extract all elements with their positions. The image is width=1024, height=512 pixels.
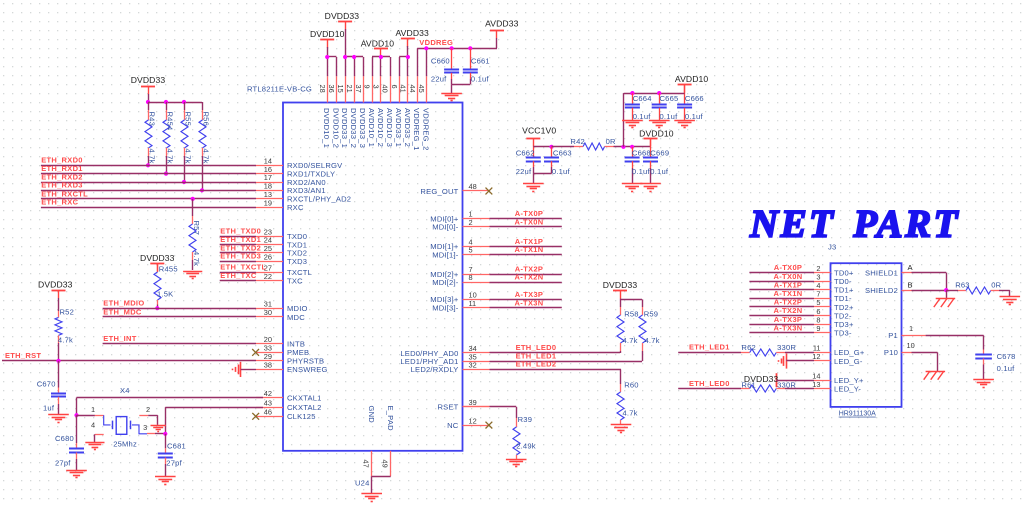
svg-text:DVDD10_2: DVDD10_2	[331, 108, 340, 148]
svg-text:25Mhz: 25Mhz	[113, 440, 137, 449]
svg-text:4.7k: 4.7k	[192, 251, 201, 266]
svg-text:R58: R58	[624, 309, 639, 318]
svg-text:AVDD10_2: AVDD10_2	[376, 108, 385, 147]
svg-text:0.1uf: 0.1uf	[552, 167, 571, 176]
svg-text:15: 15	[336, 85, 345, 93]
svg-text:LED_Y-: LED_Y-	[834, 385, 861, 394]
svg-text:330R: 330R	[777, 343, 796, 352]
svg-text:MDI[1]-: MDI[1]-	[432, 250, 459, 259]
svg-text:30: 30	[264, 308, 272, 317]
svg-text:DVDD33_2: DVDD33_2	[349, 108, 358, 148]
svg-text:R63: R63	[955, 280, 970, 289]
svg-text:GND: GND	[367, 406, 376, 424]
svg-text:26: 26	[264, 252, 272, 261]
svg-text:0R: 0R	[991, 280, 1001, 289]
svg-text:3: 3	[372, 85, 381, 89]
svg-text:49: 49	[381, 460, 390, 468]
svg-text:10: 10	[907, 341, 915, 350]
svg-text:HR911130A: HR911130A	[839, 411, 876, 418]
svg-text:C665: C665	[660, 94, 679, 103]
svg-text:C680: C680	[55, 434, 74, 443]
svg-text:DVDD10_1: DVDD10_1	[322, 108, 331, 148]
svg-text:U24: U24	[355, 479, 370, 488]
svg-text:4: 4	[91, 421, 95, 430]
svg-text:ETH_INT: ETH_INT	[103, 334, 136, 343]
svg-text:5: 5	[469, 246, 473, 255]
svg-text:C681: C681	[167, 441, 186, 450]
svg-text:36: 36	[327, 85, 336, 93]
svg-text:40: 40	[381, 85, 390, 93]
svg-text:TD3-: TD3-	[834, 329, 852, 338]
svg-text:ENSWREG: ENSWREG	[287, 365, 328, 374]
svg-text:MDI[0]-: MDI[0]-	[432, 223, 459, 232]
svg-text:4.7k: 4.7k	[623, 336, 638, 345]
svg-text:DVDD33_1: DVDD33_1	[340, 108, 349, 148]
svg-text:R57: R57	[192, 221, 201, 236]
svg-text:A-TX1N: A-TX1N	[515, 245, 544, 254]
svg-text:DVDD33: DVDD33	[38, 279, 73, 289]
svg-text:CKXTAL1: CKXTAL1	[287, 393, 322, 402]
svg-text:C678: C678	[997, 352, 1016, 361]
svg-text:VDDREG_2: VDDREG_2	[421, 108, 430, 151]
svg-text:48: 48	[469, 182, 477, 191]
svg-text:0.1uf: 0.1uf	[650, 167, 669, 176]
svg-text:39: 39	[469, 398, 477, 407]
svg-text:C660: C660	[431, 57, 450, 66]
svg-text:R455: R455	[159, 264, 178, 273]
svg-text:SHIELD1: SHIELD1	[865, 268, 898, 277]
svg-text:6: 6	[390, 85, 399, 89]
svg-text:ETH_RST: ETH_RST	[5, 351, 41, 360]
svg-text:2.49k: 2.49k	[516, 442, 536, 451]
svg-text:VDDREG_1: VDDREG_1	[412, 108, 421, 151]
svg-text:22: 22	[264, 272, 272, 281]
svg-text:C661: C661	[471, 57, 490, 66]
svg-text:42: 42	[264, 389, 272, 398]
svg-text:R62: R62	[741, 343, 756, 352]
svg-text:AVDD33_1: AVDD33_1	[394, 108, 403, 147]
svg-text:43: 43	[264, 398, 272, 407]
svg-text:41: 41	[399, 85, 408, 93]
svg-text:R42: R42	[570, 137, 585, 146]
svg-text:LED_Y+: LED_Y+	[834, 376, 864, 385]
svg-text:TXD3: TXD3	[287, 257, 307, 266]
svg-text:P10: P10	[884, 348, 898, 357]
svg-text:AVDD10: AVDD10	[361, 38, 395, 48]
svg-text:LED_G-: LED_G-	[834, 357, 863, 366]
svg-text:DVDD33: DVDD33	[131, 75, 166, 85]
svg-text:R39: R39	[518, 415, 533, 424]
svg-text:2: 2	[146, 405, 150, 414]
svg-text:AVDD10_1: AVDD10_1	[367, 108, 376, 147]
svg-text:NET PART: NET PART	[749, 203, 960, 246]
svg-text:AVDD33: AVDD33	[395, 28, 429, 38]
svg-text:J3: J3	[828, 242, 836, 251]
svg-text:X4: X4	[120, 386, 130, 395]
svg-text:4.7k: 4.7k	[202, 149, 211, 164]
svg-text:ETH_TXD3: ETH_TXD3	[220, 252, 261, 261]
svg-text:R43: R43	[148, 112, 157, 127]
svg-text:47: 47	[362, 460, 371, 468]
svg-text:RTL8211E-VB-CG: RTL8211E-VB-CG	[247, 85, 312, 94]
svg-text:19: 19	[264, 199, 272, 208]
svg-text:12: 12	[469, 416, 477, 425]
svg-text:DVDD33_3: DVDD33_3	[358, 108, 367, 148]
svg-text:AVDD33_2: AVDD33_2	[403, 108, 412, 147]
svg-text:C668: C668	[632, 148, 651, 157]
svg-text:LED2/RXDLY: LED2/RXDLY	[411, 365, 459, 374]
svg-text:20: 20	[264, 335, 272, 344]
svg-text:0.1uf: 0.1uf	[660, 112, 679, 121]
svg-text:R56: R56	[202, 112, 211, 127]
svg-text:38: 38	[264, 361, 272, 370]
svg-text:C669: C669	[650, 148, 669, 157]
svg-text:A-TX2N: A-TX2N	[515, 273, 544, 282]
svg-text:ETH_MDC: ETH_MDC	[103, 307, 142, 316]
svg-text:9: 9	[363, 85, 372, 89]
svg-text:ETH_LED0: ETH_LED0	[689, 379, 730, 388]
svg-text:VCC1V0: VCC1V0	[522, 125, 556, 135]
svg-text:MDI[3]-: MDI[3]-	[432, 304, 459, 313]
svg-text:DVDD33: DVDD33	[603, 280, 638, 290]
svg-text:MDC: MDC	[287, 313, 305, 322]
svg-text:ETH_LED2: ETH_LED2	[516, 360, 557, 369]
svg-text:C666: C666	[685, 94, 704, 103]
svg-text:22uf: 22uf	[431, 74, 447, 83]
svg-text:A-TX3N: A-TX3N	[774, 323, 803, 332]
svg-text:37: 37	[354, 85, 363, 93]
svg-text:DVDD10: DVDD10	[310, 29, 345, 39]
svg-text:27pf: 27pf	[166, 458, 182, 467]
svg-text:R454: R454	[166, 112, 175, 131]
svg-text:3: 3	[143, 423, 147, 432]
svg-text:DVDD10: DVDD10	[639, 128, 674, 138]
svg-text:TXC: TXC	[287, 276, 303, 285]
svg-text:0.1uf: 0.1uf	[471, 74, 490, 83]
svg-text:13: 13	[812, 380, 820, 389]
svg-text:CKXTAL2: CKXTAL2	[287, 403, 322, 412]
svg-text:AVDD33: AVDD33	[485, 19, 519, 29]
svg-text:9: 9	[816, 324, 820, 333]
svg-text:27pf: 27pf	[55, 458, 71, 467]
svg-text:VDDREG: VDDREG	[419, 38, 453, 47]
svg-text:1.5K: 1.5K	[157, 289, 173, 298]
svg-text:P1: P1	[888, 331, 898, 340]
svg-text:C663: C663	[553, 148, 572, 157]
svg-text:ETH_RXC: ETH_RXC	[41, 198, 78, 207]
svg-text:INTB: INTB	[287, 339, 305, 348]
svg-text:0.1uf: 0.1uf	[685, 112, 704, 121]
svg-text:2: 2	[469, 218, 473, 227]
svg-text:DVDD33: DVDD33	[325, 11, 360, 21]
svg-text:C664: C664	[633, 94, 652, 103]
svg-text:REG_OUT: REG_OUT	[420, 187, 458, 196]
svg-text:A-TX0N: A-TX0N	[515, 217, 544, 226]
svg-text:MDIO: MDIO	[287, 304, 308, 313]
svg-text:C670: C670	[37, 380, 56, 389]
svg-text:RSET: RSET	[437, 403, 458, 412]
svg-text:330R: 330R	[777, 380, 796, 389]
svg-text:MDI[2]-: MDI[2]-	[432, 278, 459, 287]
svg-text:0R: 0R	[606, 137, 616, 146]
svg-text:R55: R55	[184, 112, 193, 127]
svg-text:11: 11	[469, 299, 477, 308]
svg-text:1uf: 1uf	[43, 404, 55, 413]
svg-text:C662: C662	[516, 148, 535, 157]
svg-text:R52: R52	[60, 307, 75, 316]
svg-text:28: 28	[318, 85, 327, 93]
svg-text:14: 14	[812, 371, 820, 380]
svg-text:B: B	[908, 281, 913, 290]
svg-text:R59: R59	[644, 309, 659, 318]
svg-text:DVDD33: DVDD33	[140, 253, 175, 263]
svg-text:AVDD10: AVDD10	[675, 74, 709, 84]
svg-text:AVDD10_3: AVDD10_3	[385, 108, 394, 147]
svg-text:RXC: RXC	[287, 203, 304, 212]
svg-text:45: 45	[417, 85, 426, 93]
svg-text:ETH_TXC: ETH_TXC	[220, 271, 257, 280]
svg-text:0.1uf: 0.1uf	[997, 364, 1016, 373]
svg-text:4.7k: 4.7k	[623, 408, 638, 417]
svg-text:E_PAD: E_PAD	[386, 406, 395, 432]
svg-text:CLK125: CLK125	[287, 412, 316, 421]
svg-text:SHIELD2: SHIELD2	[865, 286, 898, 295]
svg-text:1: 1	[91, 405, 95, 414]
svg-text:4.7k: 4.7k	[58, 336, 73, 345]
svg-text:4.7k: 4.7k	[166, 149, 175, 164]
svg-text:44: 44	[408, 85, 417, 93]
svg-text:4.7k: 4.7k	[148, 149, 157, 164]
svg-text:46: 46	[264, 408, 272, 417]
svg-text:ETH_LED1: ETH_LED1	[689, 343, 730, 352]
svg-text:31: 31	[264, 299, 272, 308]
svg-text:32: 32	[469, 361, 477, 370]
svg-text:8: 8	[469, 273, 473, 282]
svg-text:21: 21	[345, 85, 354, 93]
svg-text:A-TX3N: A-TX3N	[515, 298, 544, 307]
svg-text:NC: NC	[447, 421, 459, 430]
svg-text:4.7k: 4.7k	[184, 149, 193, 164]
svg-text:0.1uf: 0.1uf	[632, 167, 651, 176]
svg-text:R61: R61	[741, 380, 756, 389]
svg-text:0.1uf: 0.1uf	[633, 112, 652, 121]
svg-text:1: 1	[909, 324, 913, 333]
svg-text:R60: R60	[624, 381, 639, 390]
svg-text:ETH_MDIO: ETH_MDIO	[103, 299, 144, 308]
svg-text:4.7k: 4.7k	[645, 336, 660, 345]
svg-text:22uf: 22uf	[516, 167, 532, 176]
